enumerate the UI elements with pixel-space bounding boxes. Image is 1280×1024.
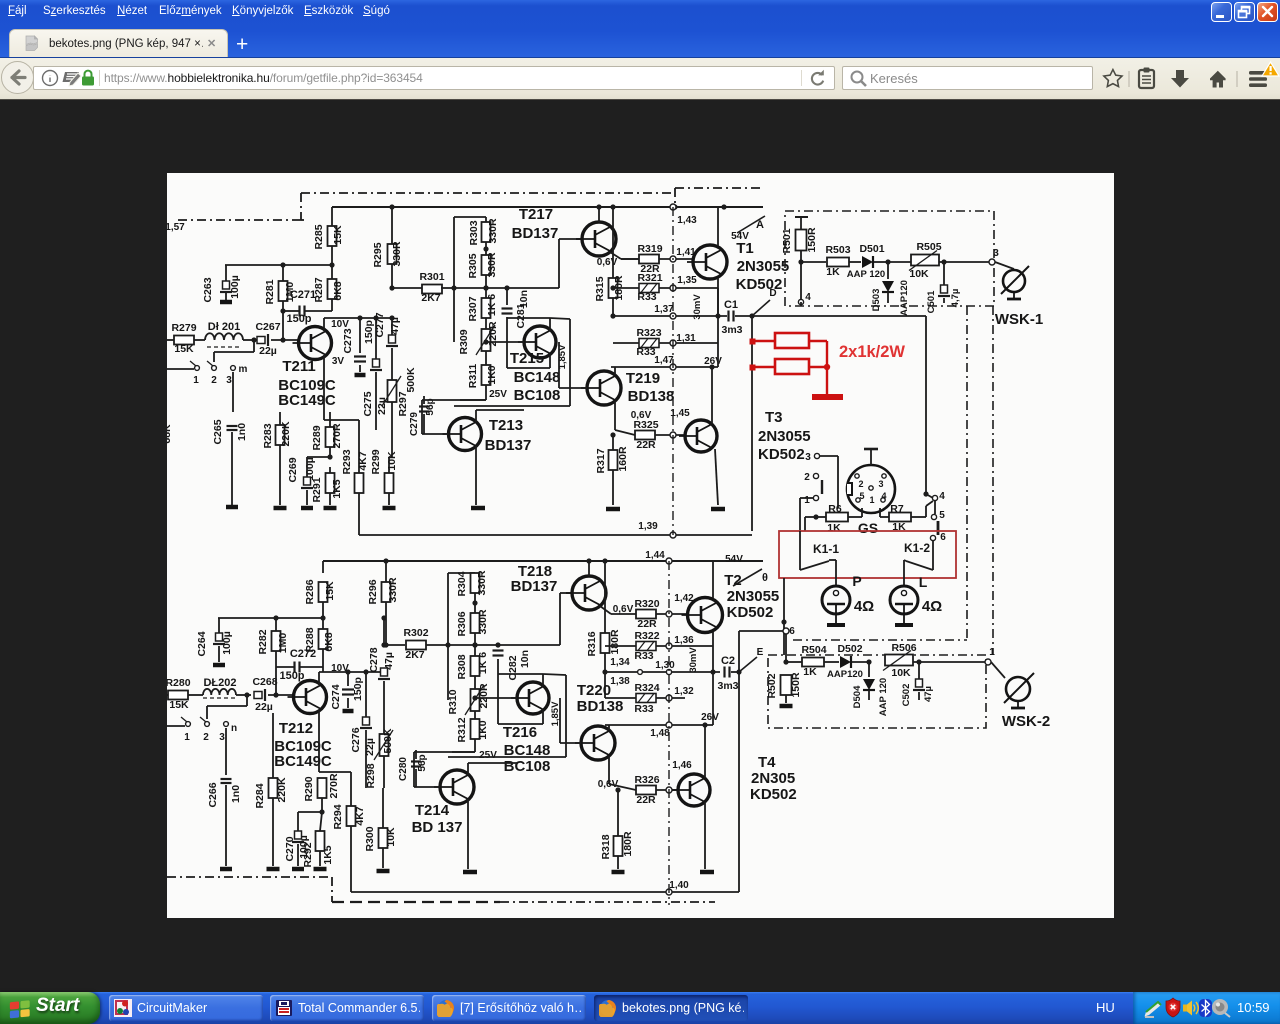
svg-text:30mV: 30mV bbox=[692, 294, 703, 320]
resistor R319 bbox=[621, 243, 694, 275]
wire y265 bbox=[225, 264, 332, 266]
pin 1 bbox=[800, 495, 819, 531]
wire collector T217 bbox=[598, 207, 600, 222]
wire base T220 bbox=[560, 698, 581, 743]
ground bbox=[463, 870, 477, 875]
node junction bbox=[273, 615, 278, 620]
wire collector T211 bbox=[324, 315, 395, 331]
svg-text:T219: T219 bbox=[626, 370, 660, 387]
svg-text:T3: T3 bbox=[765, 409, 783, 426]
resistor R320 bbox=[634, 598, 687, 630]
svg-text:4Ω: 4Ω bbox=[922, 598, 942, 615]
svg-text:R504: R504 bbox=[801, 644, 826, 656]
wire C2 up to node6 bbox=[739, 631, 783, 672]
svg-text:D504: D504 bbox=[852, 685, 863, 708]
wire box col ch2 bbox=[448, 573, 475, 700]
svg-text:2N305: 2N305 bbox=[751, 770, 795, 787]
svg-text:R295: R295 bbox=[372, 242, 384, 267]
svg-text:4,7µ: 4,7µ bbox=[950, 289, 961, 308]
wire emitter T218 bbox=[600, 606, 636, 614]
connector WSK-1 bbox=[995, 266, 1043, 328]
svg-text:C264: C264 bbox=[196, 631, 208, 656]
transistor T1 bbox=[687, 240, 789, 293]
dash-dot left top bbox=[175, 220, 304, 340]
capacitor C278 bbox=[368, 642, 395, 788]
svg-text:R284: R284 bbox=[254, 783, 266, 808]
wire speaker L bbox=[904, 560, 906, 585]
svg-text:22µ: 22µ bbox=[255, 701, 273, 713]
wire T215 collector bbox=[507, 318, 550, 330]
svg-text:L: L bbox=[919, 574, 928, 590]
wire down from C1 bbox=[751, 316, 753, 531]
svg-text:10K: 10K bbox=[891, 667, 911, 679]
switch pin 1 ch2 bbox=[167, 717, 190, 743]
inductor Dl201 bbox=[205, 321, 243, 347]
svg-text:220K: 220K bbox=[276, 777, 288, 803]
svg-text:C2: C2 bbox=[721, 655, 735, 667]
svg-text:C268: C268 bbox=[252, 676, 277, 688]
svg-text:R306: R306 bbox=[456, 611, 468, 636]
label 30mV ch2 bbox=[688, 647, 699, 673]
svg-text:Dł 201: Dł 201 bbox=[208, 321, 240, 333]
wire speaker P bbox=[829, 560, 836, 585]
svg-text:R290: R290 bbox=[303, 776, 315, 801]
wire T220 collector bbox=[598, 756, 636, 790]
svg-text:R297: R297 bbox=[397, 391, 409, 416]
svg-text:C277: C277 bbox=[374, 312, 386, 337]
svg-text:R300: R300 bbox=[364, 826, 376, 851]
pin 6 bbox=[930, 532, 946, 560]
svg-text:A: A bbox=[756, 219, 764, 231]
wire 26V ch2 bbox=[605, 672, 719, 739]
wire bbox=[225, 728, 227, 775]
svg-text:330R: 330R bbox=[486, 252, 498, 278]
wire pin3 bbox=[805, 452, 838, 478]
capacitor C269 bbox=[287, 457, 330, 505]
wire 26V line bbox=[611, 288, 722, 370]
wire base T219 bbox=[559, 342, 587, 388]
svg-text:2: 2 bbox=[858, 479, 863, 489]
svg-text:C282: C282 bbox=[507, 655, 519, 680]
red relay box bbox=[779, 531, 956, 578]
thick dash chassis bbox=[332, 901, 500, 903]
svg-text:47µ: 47µ bbox=[923, 686, 934, 702]
resistor R308 bbox=[456, 652, 489, 689]
arrow D bbox=[752, 288, 777, 316]
svg-text:1,44: 1,44 bbox=[645, 550, 665, 561]
dash-dot top border bbox=[301, 188, 763, 220]
svg-text:150p: 150p bbox=[279, 670, 304, 682]
ground bbox=[220, 867, 232, 872]
svg-text:47µ: 47µ bbox=[389, 317, 401, 335]
connector WSK-2 bbox=[1002, 673, 1050, 730]
capacitor C267 bbox=[255, 321, 280, 357]
svg-text:1,39: 1,39 bbox=[638, 521, 658, 532]
ground bbox=[220, 300, 232, 305]
red label 2x1k/2W bbox=[839, 343, 905, 361]
svg-text:30mV: 30mV bbox=[688, 647, 699, 673]
svg-text:15K: 15K bbox=[324, 581, 336, 601]
wire emitter T212 bbox=[319, 710, 351, 772]
resistor R501 bbox=[781, 216, 818, 265]
svg-text:C263: C263 bbox=[202, 277, 214, 302]
svg-text:R319: R319 bbox=[637, 243, 662, 255]
svg-text:22R: 22R bbox=[636, 794, 656, 806]
ground bbox=[301, 506, 313, 511]
capacitor C270 bbox=[284, 812, 322, 866]
svg-text:2K7: 2K7 bbox=[421, 292, 440, 304]
svg-text:330R: 330R bbox=[477, 609, 489, 635]
speaker L 4ohm bbox=[890, 574, 942, 625]
svg-text:2K7: 2K7 bbox=[405, 649, 424, 661]
wire box T216 bbox=[448, 674, 566, 757]
svg-text:R325: R325 bbox=[633, 419, 658, 431]
svg-text:15K: 15K bbox=[332, 225, 344, 245]
svg-text:3: 3 bbox=[993, 248, 999, 259]
svg-text:BC149C: BC149C bbox=[278, 392, 336, 409]
wire bbox=[194, 339, 205, 341]
svg-text:2N3055: 2N3055 bbox=[758, 428, 811, 445]
svg-text:R317: R317 bbox=[595, 448, 607, 473]
svg-text:4Ω: 4Ω bbox=[854, 598, 874, 615]
svg-text:5: 5 bbox=[859, 491, 864, 501]
svg-text:BD138: BD138 bbox=[628, 388, 675, 405]
wire bbox=[236, 692, 251, 697]
svg-text:R296: R296 bbox=[367, 579, 379, 604]
switch pin 2 bbox=[207, 361, 217, 386]
svg-text:0,6V: 0,6V bbox=[597, 257, 618, 268]
node 3 bbox=[989, 248, 999, 265]
svg-text:R322: R322 bbox=[634, 630, 659, 642]
transistor T216 bbox=[479, 682, 561, 775]
svg-text:1,48: 1,48 bbox=[650, 728, 670, 739]
svg-text:KD502: KD502 bbox=[758, 446, 805, 463]
svg-text:R291: R291 bbox=[311, 477, 323, 502]
svg-text:BD138: BD138 bbox=[577, 698, 624, 715]
svg-text:C276: C276 bbox=[350, 727, 362, 752]
svg-text:R285: R285 bbox=[313, 224, 325, 249]
capacitor C277 bbox=[374, 285, 401, 457]
label 10V bbox=[331, 319, 349, 330]
svg-text:R506: R506 bbox=[891, 642, 916, 654]
svg-text:4: 4 bbox=[881, 491, 886, 501]
dashed box WSK-1 bbox=[785, 211, 994, 306]
capacitor C282 bbox=[493, 642, 532, 698]
svg-text:1n0: 1n0 bbox=[236, 423, 248, 441]
svg-text:2: 2 bbox=[804, 472, 810, 483]
label 10V ch2 bbox=[331, 663, 349, 674]
svg-text:T211: T211 bbox=[282, 358, 315, 375]
svg-text:AAP120: AAP120 bbox=[827, 669, 863, 680]
svg-text:C271: C271 bbox=[290, 289, 316, 301]
svg-text:R6: R6 bbox=[828, 503, 842, 515]
wire emitter T1 bbox=[715, 278, 720, 319]
svg-text:25V: 25V bbox=[479, 750, 497, 761]
wire box T215 bbox=[454, 318, 570, 406]
resistor R311 bbox=[460, 364, 498, 400]
wire emitter T214 bbox=[467, 799, 469, 869]
svg-text:P: P bbox=[852, 573, 861, 589]
resistor R317 bbox=[595, 432, 629, 505]
wire emitter T211 bbox=[324, 355, 359, 420]
svg-text:26V: 26V bbox=[701, 712, 719, 723]
svg-text:2N3055: 2N3055 bbox=[737, 258, 790, 275]
ground bbox=[711, 507, 725, 512]
svg-text:C267: C267 bbox=[255, 321, 280, 333]
wire T220 emitter bbox=[608, 725, 610, 730]
svg-text:10K: 10K bbox=[909, 268, 929, 280]
wire to WSK-2 bbox=[991, 662, 1005, 678]
potentiometer R297 500K bbox=[382, 367, 417, 417]
svg-text:T220: T220 bbox=[577, 682, 611, 699]
wire prot row bbox=[801, 261, 826, 263]
svg-text:KD502: KD502 bbox=[727, 604, 774, 621]
svg-text:5: 5 bbox=[939, 510, 945, 521]
label 0,6V bbox=[597, 257, 618, 268]
wire C278 top bbox=[381, 615, 386, 645]
DIN connector GS bbox=[847, 449, 895, 513]
svg-text:2: 2 bbox=[203, 732, 209, 743]
svg-text:R310: R310 bbox=[447, 689, 459, 714]
resistor R318 bbox=[600, 787, 634, 869]
svg-text:500K: 500K bbox=[405, 367, 417, 393]
svg-text:C278: C278 bbox=[368, 647, 380, 672]
svg-text:R282: R282 bbox=[257, 629, 269, 654]
resistor R280 bbox=[165, 677, 190, 711]
node junction bbox=[251, 337, 256, 342]
relay contact K1-2 bbox=[904, 541, 933, 570]
arrow A bbox=[737, 216, 765, 233]
svg-text:R505: R505 bbox=[916, 241, 941, 253]
svg-text:D502: D502 bbox=[837, 643, 862, 655]
resistor R321 R33 bbox=[610, 272, 718, 303]
node 4 bbox=[798, 262, 811, 306]
resistor R285 bbox=[313, 207, 344, 268]
ground bbox=[213, 663, 225, 668]
svg-text:D: D bbox=[769, 288, 776, 299]
label 1,46 bbox=[666, 760, 692, 793]
resistor R301 bbox=[419, 271, 456, 304]
resistor R279 bbox=[171, 322, 196, 355]
svg-text:R298: R298 bbox=[365, 763, 377, 788]
node junction bbox=[596, 204, 601, 209]
svg-text:3m3: 3m3 bbox=[717, 680, 738, 692]
svg-text:4: 4 bbox=[805, 292, 811, 303]
resistor R504 bbox=[801, 644, 839, 678]
svg-text:θ: θ bbox=[762, 572, 768, 584]
wire output y672 bbox=[602, 657, 720, 687]
resistor R293 bbox=[341, 420, 369, 535]
arrow E bbox=[739, 647, 764, 672]
svg-text:C272: C272 bbox=[290, 648, 316, 660]
svg-text:R312: R312 bbox=[456, 717, 468, 742]
svg-text:54V: 54V bbox=[731, 231, 749, 242]
resistor R283 bbox=[262, 412, 292, 505]
svg-text:56p: 56p bbox=[425, 398, 436, 415]
resistor R289 bbox=[311, 412, 343, 460]
svg-text:R299: R299 bbox=[370, 449, 382, 474]
svg-text:68K: 68K bbox=[167, 424, 173, 444]
node junction bbox=[672, 204, 677, 209]
transistor T212 bbox=[274, 681, 332, 771]
svg-text:WSK-2: WSK-2 bbox=[1002, 713, 1050, 730]
dash-dot bottom ch2 bbox=[167, 877, 332, 902]
transistor T2 bbox=[682, 572, 780, 633]
svg-text:R320: R320 bbox=[634, 598, 659, 610]
wire bbox=[232, 372, 234, 412]
svg-text:R502: R502 bbox=[766, 673, 778, 698]
svg-text:R308: R308 bbox=[456, 654, 468, 679]
wire y618 bbox=[218, 617, 323, 619]
pin 5 bbox=[931, 510, 945, 521]
svg-text:3: 3 bbox=[219, 732, 225, 743]
arrow B bbox=[733, 569, 768, 586]
svg-text:10V: 10V bbox=[331, 319, 349, 330]
resistor R325 bbox=[633, 419, 684, 451]
red resistor 1k (2) bbox=[775, 359, 809, 374]
potentiometer R298 500K bbox=[365, 728, 394, 789]
svg-text:K1-2: K1-2 bbox=[904, 541, 930, 555]
resistor R284 bbox=[254, 713, 288, 866]
svg-text:R301: R301 bbox=[419, 271, 444, 283]
switch pin 3 ch2 bbox=[219, 722, 237, 743]
svg-text:R33: R33 bbox=[634, 650, 653, 662]
svg-text:1K0: 1K0 bbox=[486, 365, 498, 384]
node junction bbox=[721, 204, 726, 209]
wire emitter T2 bbox=[710, 632, 715, 675]
wire collector T214 bbox=[468, 763, 517, 775]
wire collector T213 bbox=[476, 410, 524, 422]
svg-text:R316: R316 bbox=[586, 631, 598, 656]
svg-text:270R: 270R bbox=[331, 423, 343, 449]
ground bbox=[377, 869, 390, 874]
ground bbox=[471, 506, 485, 511]
svg-text:1K 6: 1K 6 bbox=[486, 294, 498, 316]
svg-text:DŁ202: DŁ202 bbox=[203, 677, 236, 689]
wire T216 collector bbox=[498, 674, 543, 686]
label 68K bbox=[161, 424, 173, 444]
svg-text:AAP 120: AAP 120 bbox=[847, 269, 885, 280]
capacitor C2 bbox=[717, 655, 741, 692]
resistor R324 R33 bbox=[605, 662, 685, 715]
svg-text:R286: R286 bbox=[304, 579, 316, 604]
svg-text:1n0: 1n0 bbox=[230, 785, 242, 803]
svg-text:AAP120: AAP120 bbox=[899, 280, 910, 316]
svg-text:2: 2 bbox=[211, 375, 217, 386]
svg-text:R321: R321 bbox=[637, 272, 662, 284]
svg-text:C280: C280 bbox=[398, 757, 409, 781]
capacitor C276 bbox=[350, 672, 376, 788]
label 0,6V ch2 bbox=[613, 604, 634, 615]
svg-text:160R: 160R bbox=[617, 446, 629, 472]
resistor R6 bbox=[826, 503, 862, 534]
wire base T214 bbox=[414, 752, 475, 787]
svg-text:C502: C502 bbox=[901, 684, 912, 707]
resistor R306 bbox=[456, 609, 489, 656]
center dash line ch1 bbox=[672, 207, 674, 535]
resistor R300 bbox=[364, 788, 397, 868]
node 1 bbox=[985, 647, 995, 665]
resistor R502 bbox=[766, 662, 802, 703]
svg-text:3V: 3V bbox=[332, 356, 345, 367]
svg-text:270R: 270R bbox=[328, 773, 340, 799]
svg-text:1,30: 1,30 bbox=[655, 660, 675, 671]
svg-text:KD502: KD502 bbox=[750, 786, 797, 803]
svg-text:15K: 15K bbox=[174, 343, 194, 355]
transistor T215 bbox=[489, 326, 568, 404]
node junction bbox=[280, 308, 285, 342]
svg-text:C501: C501 bbox=[926, 290, 937, 313]
resistor R288 bbox=[304, 618, 335, 664]
svg-text:1: 1 bbox=[989, 647, 995, 658]
svg-text:3: 3 bbox=[226, 375, 232, 386]
svg-text:0,6V: 0,6V bbox=[598, 779, 619, 790]
wire bbox=[243, 339, 253, 341]
capacitor C280 56p bbox=[398, 750, 428, 787]
resistor R292 bbox=[302, 812, 334, 868]
wire feedback ch2 bbox=[351, 880, 739, 895]
relay contact K1-1 bbox=[800, 531, 839, 570]
svg-text:BC149C: BC149C bbox=[274, 753, 332, 770]
resistor R307 bbox=[467, 294, 498, 329]
svg-text:1,38: 1,38 bbox=[610, 676, 630, 687]
red wire stub 2 bbox=[750, 365, 776, 371]
svg-text:C279: C279 bbox=[409, 412, 420, 436]
svg-text:22R: 22R bbox=[637, 618, 657, 630]
svg-text:R293: R293 bbox=[341, 449, 353, 474]
svg-text:1,35: 1,35 bbox=[677, 275, 697, 286]
wire output y316 bbox=[610, 313, 727, 318]
wire C2 down bbox=[738, 672, 740, 892]
capacitor C275 bbox=[362, 318, 388, 430]
svg-text:150R: 150R bbox=[790, 672, 802, 698]
svg-text:AAP 120: AAP 120 bbox=[878, 678, 889, 716]
capacitor C281 bbox=[502, 285, 531, 342]
svg-text:22µ: 22µ bbox=[259, 345, 277, 357]
svg-text:R281: R281 bbox=[264, 279, 276, 304]
label 1,57 bbox=[165, 222, 185, 233]
svg-text:1K: 1K bbox=[826, 266, 840, 278]
red resistor 1k (1) bbox=[775, 333, 809, 348]
svg-text:T4: T4 bbox=[758, 754, 776, 771]
svg-text:4: 4 bbox=[939, 491, 945, 502]
svg-text:1K5: 1K5 bbox=[331, 479, 343, 498]
dash-dot border right bbox=[966, 306, 968, 640]
wire T3 emitter bbox=[715, 449, 718, 505]
svg-text:R33: R33 bbox=[637, 291, 656, 303]
potentiometer R505 bbox=[888, 241, 989, 280]
svg-text:T217: T217 bbox=[519, 206, 553, 223]
resistor R323 R33 bbox=[613, 327, 718, 358]
diode D503 bbox=[871, 262, 910, 316]
svg-text:R303: R303 bbox=[468, 220, 480, 245]
resistor R312 bbox=[452, 717, 489, 752]
switch contact bbox=[821, 480, 823, 494]
ground bbox=[292, 867, 304, 872]
svg-text:R304: R304 bbox=[456, 571, 468, 596]
svg-text:54V: 54V bbox=[725, 554, 743, 565]
svg-text:1M0: 1M0 bbox=[277, 633, 289, 654]
wire node6 down bbox=[783, 634, 788, 665]
wire T216 emitter bbox=[498, 698, 543, 724]
svg-text:1K5: 1K5 bbox=[322, 845, 334, 864]
wire bbox=[214, 340, 254, 362]
pin 4 bbox=[932, 491, 945, 514]
svg-text:R289: R289 bbox=[311, 425, 323, 450]
ground bbox=[383, 506, 396, 511]
svg-text:6: 6 bbox=[940, 532, 946, 543]
diode D501 bbox=[847, 243, 891, 280]
